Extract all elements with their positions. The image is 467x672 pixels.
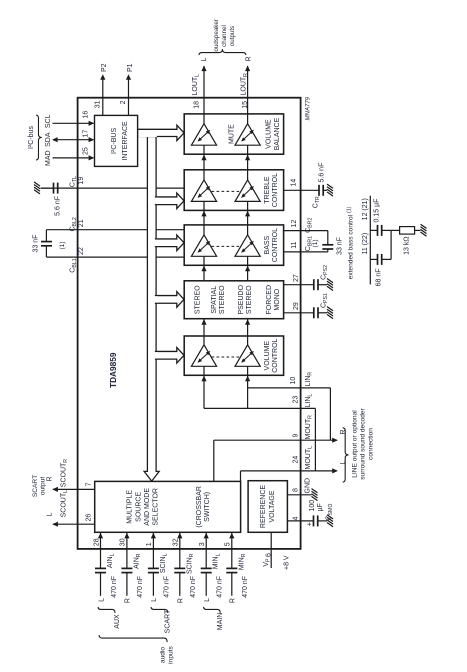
svg-text:14: 14 [291, 179, 298, 187]
svg-text:10: 10 [290, 377, 297, 385]
svg-text:R: R [125, 598, 132, 603]
svg-text:R: R [246, 56, 253, 61]
svg-text:9: 9 [293, 434, 300, 438]
svg-text:3: 3 [199, 542, 206, 546]
wire LINL pin23 [204, 407, 315, 409]
svg-text:STEREO: STEREO [194, 285, 201, 314]
svg-text:L: L [98, 598, 105, 602]
svg-text:100: 100 [309, 500, 316, 512]
wire P1 pin2 [128, 77, 130, 115]
amplifier L in volume control U-vol [203, 366, 205, 375]
block volume control U-vol [184, 336, 283, 375]
svg-text:L: L [151, 598, 158, 602]
svg-text:MAD: MAD [45, 150, 52, 166]
svg-text:I²C-BUS: I²C-BUS [111, 128, 118, 154]
svg-text:VOLUME: VOLUME [266, 119, 273, 149]
svg-text:470 nF: 470 nF [217, 576, 224, 598]
brace SCART pair [151, 607, 168, 613]
svg-text:5.6 nF: 5.6 nF [319, 163, 326, 183]
capacitor 68nF [370, 258, 377, 260]
svg-text:surround sound decoder: surround sound decoder [360, 407, 367, 479]
brace MAIN pair [204, 607, 221, 613]
svg-text:FORCED: FORCED [266, 285, 273, 315]
L rail segments with arrows [203, 375, 205, 408]
bus arrow into block at x=429.2 [156, 235, 185, 251]
svg-text:P2: P2 [101, 63, 108, 72]
svg-text:SWITCH): SWITCH) [204, 492, 211, 522]
capacitor CTL 5.6nF + ground [53, 183, 55, 194]
bus arrow into block at x=316.7 [156, 348, 185, 364]
svg-text:31: 31 [94, 100, 101, 108]
svg-text:BALANCE: BALANCE [274, 117, 281, 150]
block stereo / spatial stereo / pseudo stereo / forced mono [184, 281, 283, 319]
gang dashed link in treble control U-treb [212, 190, 242, 192]
gang dashed link in bass control U-bass [212, 245, 242, 247]
svg-text:6: 6 [265, 553, 272, 557]
svg-text:P1: P1 [127, 63, 134, 72]
input SCINL pin1 + capacitor 470nF [152, 573, 154, 596]
svg-text:18: 18 [194, 101, 201, 109]
svg-text:CONTROL: CONTROL [272, 338, 279, 372]
svg-text:L: L [340, 461, 347, 465]
block bass control U-bass [184, 225, 283, 265]
svg-text:SPATIAL: SPATIAL [211, 286, 218, 314]
svg-text:470 nF: 470 nF [111, 576, 118, 598]
svg-text:AND MODE: AND MODE [144, 488, 151, 526]
svg-text:+8 V: +8 V [284, 555, 291, 570]
svg-text:30: 30 [120, 538, 127, 546]
wires pins 11,12 + capacitor CBR1 33nF bridge [284, 230, 328, 232]
svg-text:17: 17 [83, 130, 90, 138]
svg-text:MULTIPLE: MULTIPLE [127, 490, 134, 524]
amplifier L in treble control U-treb [203, 201, 205, 210]
input AINL pin28 + capacitor 470nF [100, 573, 102, 596]
amplifier R in bass control U-bass [247, 256, 249, 265]
capacitor 0.15uF [370, 229, 377, 231]
svg-text:0.15 µF: 0.15 µF [374, 199, 381, 223]
svg-text:STEREO: STEREO [219, 285, 226, 314]
wire pin29 + capacitor CPS1 + ground [284, 312, 314, 314]
svg-text:32: 32 [173, 538, 180, 546]
svg-text:MAIN: MAIN [217, 613, 224, 631]
svg-text:7: 7 [86, 482, 93, 486]
wire SCOUTR pin7 [53, 488, 95, 490]
svg-text:13 kΩ: 13 kΩ [404, 236, 411, 254]
svg-text:33 nF: 33 nF [337, 237, 344, 255]
svg-text:8: 8 [293, 488, 300, 492]
svg-text:TREBLE: TREBLE [264, 176, 271, 204]
svg-text:22: 22 [78, 247, 85, 255]
capacitor CBL1/CBL2 33nF bridge pins 21-22 [45, 246, 47, 257]
svg-text:28: 28 [93, 538, 100, 546]
svg-text:470 nF: 470 nF [137, 576, 144, 598]
svg-text:SCL: SCL [45, 114, 52, 128]
svg-text:470 nF: 470 nF [164, 576, 171, 598]
svg-text:I²C-bus: I²C-bus [28, 126, 35, 149]
input MINR pin5 + capacitor 470nF [231, 573, 233, 596]
svg-text:21: 21 [78, 219, 85, 227]
brace I2C-bus [36, 115, 42, 160]
svg-text:L: L [47, 513, 54, 517]
svg-text:CONTROL: CONTROL [272, 173, 279, 207]
wire pin14 + capacitor CTR 5.6nF + ground [284, 189, 319, 191]
svg-text:1: 1 [146, 542, 153, 546]
svg-text:470 nF: 470 nF [242, 576, 249, 598]
amplifier L in bass control U-bass [203, 256, 205, 265]
svg-text:11 (22): 11 (22) [362, 233, 369, 255]
svg-text:R: R [47, 476, 54, 481]
svg-text:470 nF: 470 nF [190, 576, 197, 598]
svg-text:5: 5 [225, 542, 232, 546]
wire pin21 CBL2 vertical [46, 229, 184, 231]
svg-text:R: R [230, 598, 237, 603]
svg-text:VOLUME: VOLUME [264, 341, 271, 371]
svg-text:29: 29 [293, 302, 300, 310]
svg-text:R: R [178, 598, 185, 603]
extended bass main line pins 11(22) 12(21) [369, 196, 371, 285]
svg-text:INTERFACE: INTERFACE [122, 121, 129, 161]
svg-text:SCART: SCART [32, 475, 39, 497]
svg-text:5.6 nF: 5.6 nF [55, 196, 62, 216]
svg-text:MONO: MONO [274, 288, 281, 310]
svg-text:PSEUDO: PSEUDO [238, 284, 245, 314]
svg-text:68 nF: 68 nF [376, 269, 383, 287]
LOUTL line pin18 [203, 66, 205, 114]
wire LINR pin10 [248, 387, 331, 389]
bus rail from I2C interface [144, 137, 159, 482]
svg-text:L: L [201, 58, 208, 62]
svg-text:24: 24 [293, 456, 300, 464]
input AINR pin30 + capacitor 470nF [126, 573, 128, 596]
svg-text:SELECTOR: SELECTOR [153, 488, 160, 526]
wire MOUTR pin9 from crossbar [213, 440, 215, 481]
svg-text:MUTE: MUTE [229, 124, 236, 144]
brace loudspeaker outputs [199, 49, 246, 55]
wire SCOUTL pin26 [53, 523, 95, 525]
svg-text:BASS: BASS [264, 235, 271, 254]
bus arrow into block at x=372.6 [156, 292, 185, 308]
input MINL pin3 + capacitor 470nF [205, 573, 207, 596]
svg-text:(1): (1) [59, 241, 66, 249]
amplifier R in volume control U-vol [247, 366, 249, 375]
svg-text:STEREO: STEREO [246, 285, 253, 314]
svg-text:16: 16 [83, 111, 90, 119]
big brace audio inputs [99, 635, 167, 642]
wire pin4 + capacitor CSMO 100uF + ground [287, 520, 313, 522]
brace line output [343, 428, 349, 482]
svg-text:SDA: SDA [45, 132, 52, 147]
svg-text:4: 4 [293, 517, 300, 521]
wire MAD pin25 [53, 157, 94, 159]
svg-text:GND: GND [305, 478, 312, 494]
chip TDA9859 outline [78, 98, 301, 549]
amplifier volume/balance R [247, 145, 249, 154]
wire pin8 GND + ground [287, 494, 311, 496]
wire pin19 CTL vertical [41, 187, 185, 189]
block treble control U-treb [184, 170, 283, 211]
svg-text:23: 23 [293, 396, 300, 404]
svg-text:12: 12 [291, 220, 298, 228]
gang dashed link in volume control U-vol [212, 356, 242, 358]
svg-text:AUX: AUX [114, 614, 121, 629]
svg-text:27: 27 [293, 274, 300, 282]
svg-text:R: R [340, 429, 347, 434]
wire P2 pin31 [102, 77, 104, 115]
input SCINR pin32 + capacitor 470nF [179, 573, 181, 596]
wire pin22 CBL1 vertical [46, 256, 184, 258]
svg-text:REFERENCE: REFERENCE [260, 485, 267, 529]
svg-text:SOURCE: SOURCE [135, 492, 142, 522]
block multiple source and mode selector (crossbar switch) [95, 481, 241, 532]
svg-text:(CROSSBAR: (CROSSBAR [196, 486, 203, 528]
svg-text:MNA779: MNA779 [306, 96, 312, 120]
svg-text:11: 11 [291, 241, 298, 248]
wire MOUTL pin24 from crossbar [240, 471, 242, 482]
svg-text:L: L [204, 598, 211, 602]
svg-text:+: + [305, 521, 314, 526]
block mute + volume balance [184, 114, 283, 154]
svg-text:SCART: SCART [165, 609, 172, 633]
brace AUX pair [98, 607, 115, 613]
svg-text:channel: channel [221, 25, 228, 47]
svg-text:25: 25 [83, 147, 90, 155]
wire SCL pin16 [53, 122, 94, 124]
svg-text:output: output [40, 477, 47, 496]
svg-text:extended bass control (1): extended bass control (1) [347, 206, 355, 279]
svg-text:26: 26 [86, 514, 93, 522]
amplifier R in treble control U-treb [247, 201, 249, 210]
svg-text:(1): (1) [312, 239, 319, 247]
svg-text:connection: connection [368, 428, 375, 460]
block reference voltage [248, 481, 287, 533]
svg-text:outputs: outputs [229, 26, 236, 46]
svg-text:audio: audio [160, 647, 167, 663]
wire SDA pin17 (bidirectional) [54, 139, 94, 141]
block I2C-bus interface [95, 115, 138, 166]
svg-text:TDA9859: TDA9859 [108, 352, 118, 388]
svg-text:19: 19 [78, 177, 85, 185]
bus arrow into block at x=471.2 [156, 193, 185, 209]
wire VP pin6 [270, 532, 272, 568]
svg-text:loudspeaker: loudspeaker [213, 19, 220, 53]
LOUTR line pin15 [247, 66, 249, 114]
amplifier mute L [203, 145, 205, 154]
svg-text:12 (21): 12 (21) [362, 198, 369, 220]
svg-text:inputs: inputs [168, 646, 175, 664]
svg-text:CONTROL: CONTROL [272, 228, 279, 262]
svg-text:2: 2 [120, 100, 127, 104]
svg-text:VOLTAGE: VOLTAGE [269, 490, 276, 522]
wire pin27 + capacitor CPS2 + ground [284, 284, 314, 286]
svg-text:33 nF: 33 nF [33, 235, 40, 253]
join + resistor 13k + ground [390, 230, 392, 259]
bus arrow into mute/volume-balance block [138, 125, 184, 140]
svg-text:LINE output or optional: LINE output or optional [352, 410, 359, 478]
svg-text:µF: µF [317, 503, 324, 511]
svg-text:15: 15 [242, 101, 249, 109]
